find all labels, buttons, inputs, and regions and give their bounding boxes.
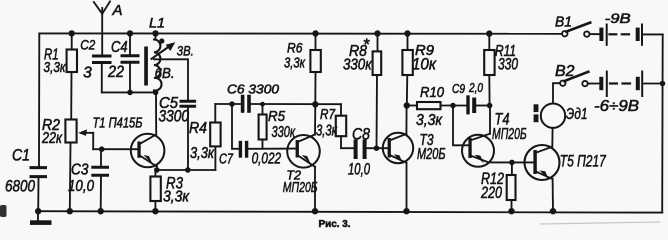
svg-text:В2: В2 bbox=[555, 63, 575, 80]
svg-text:C9: C9 bbox=[452, 81, 465, 96]
wire T4 base drop bbox=[453, 106, 469, 146]
switch B2 bbox=[560, 72, 599, 87]
svg-text:R6: R6 bbox=[287, 40, 303, 56]
svg-text:C4: C4 bbox=[111, 39, 128, 56]
svg-text:10,0: 10,0 bbox=[68, 178, 94, 195]
svg-text:R4: R4 bbox=[189, 120, 207, 137]
svg-text:Рис. 3.: Рис. 3. bbox=[319, 218, 351, 230]
wire T4 emitter to T5 base bbox=[489, 161, 534, 163]
svg-text:R5: R5 bbox=[268, 108, 286, 125]
svg-text:10к: 10к bbox=[412, 56, 437, 74]
svg-text:Эд1: Эд1 bbox=[566, 106, 588, 123]
transistor T2 MP20B bbox=[287, 104, 320, 211]
resistor R10 3,3k bbox=[417, 102, 441, 109]
capacitor C4 22 bbox=[122, 33, 138, 92]
resistor R6 3,3k bbox=[310, 34, 320, 105]
svg-text:С6 3300: С6 3300 bbox=[227, 82, 280, 97]
svg-text:R10: R10 bbox=[420, 84, 445, 101]
svg-text:6800: 6800 bbox=[5, 178, 36, 196]
battery B1 -9V bbox=[599, 24, 662, 46]
transistor T3 M20B bbox=[383, 106, 413, 212]
svg-text:220: 220 bbox=[480, 183, 502, 202]
svg-text:3В.: 3В. bbox=[177, 43, 194, 59]
ground bbox=[30, 211, 52, 225]
capacitor C5 3300 bbox=[181, 101, 195, 106]
svg-text:330: 330 bbox=[498, 55, 518, 74]
wire C7 drop bbox=[232, 104, 239, 149]
svg-text:3,3к: 3,3к bbox=[316, 123, 337, 140]
svg-text:C7: C7 bbox=[219, 151, 233, 168]
svg-text:В1: В1 bbox=[555, 15, 572, 31]
inductor L1 with adjustable tap bbox=[144, 33, 175, 92]
svg-text:A: A bbox=[112, 2, 123, 19]
wire node line y105.5 bbox=[407, 105, 417, 107]
capacitor C8 10,0 bbox=[356, 142, 365, 158]
wire top rail (-9V bus) bbox=[39, 32, 562, 34]
scan artifact left edge bbox=[0, 205, 7, 217]
svg-text:-9В: -9В bbox=[605, 10, 631, 26]
svg-text:10,0: 10,0 bbox=[348, 161, 371, 179]
svg-text:3,3к: 3,3к bbox=[284, 55, 306, 72]
scan artifact bottom right faint line bbox=[540, 222, 660, 224]
svg-text:C2: C2 bbox=[80, 37, 95, 53]
wire node line y104 bbox=[215, 103, 241, 105]
svg-text:R7: R7 bbox=[320, 106, 336, 123]
svg-text:C8: C8 bbox=[352, 126, 371, 144]
svg-text:Т5 П217: Т5 П217 bbox=[560, 152, 606, 171]
svg-text:0,022: 0,022 bbox=[252, 151, 282, 168]
svg-text:МП20Б: МП20Б bbox=[283, 179, 318, 196]
resistor R5 330k bbox=[259, 104, 267, 149]
resistor R9 10k bbox=[402, 34, 412, 106]
svg-text:3,3к: 3,3к bbox=[190, 145, 215, 162]
node 3V tap bbox=[159, 38, 164, 43]
resistor R7 3,3k bbox=[336, 104, 354, 148]
transistor T4 MP20B bbox=[462, 106, 494, 167]
svg-text:3,3к: 3,3к bbox=[44, 59, 67, 76]
motor Ed1 bbox=[534, 83, 566, 128]
resistor R3 3,3k bbox=[150, 170, 160, 211]
antenna A bbox=[94, 1, 110, 55]
wire tank bottom node bbox=[102, 91, 156, 93]
capacitor C2 3 bbox=[94, 56, 111, 63]
svg-text:3,3к: 3,3к bbox=[163, 189, 190, 206]
svg-text:2,0: 2,0 bbox=[468, 80, 483, 95]
resistor R8 330k bbox=[373, 34, 382, 149]
resistor R11 330 bbox=[484, 34, 494, 106]
svg-text:C3: C3 bbox=[71, 162, 88, 179]
wire left rail bbox=[38, 33, 40, 165]
resistor R1 3,3k bbox=[67, 33, 77, 119]
battery B2 -6..9V bbox=[599, 71, 662, 98]
capacitor C9 2,0 bbox=[468, 97, 474, 113]
svg-text:3,3к: 3,3к bbox=[416, 112, 443, 129]
switch B1 bbox=[562, 23, 599, 37]
capacitor C1 6800 bbox=[31, 168, 46, 177]
resistor R4 3,3k bbox=[210, 104, 220, 170]
wire T1 emitter line bbox=[157, 169, 216, 171]
svg-text:22к: 22к bbox=[41, 130, 63, 147]
svg-text:-6÷9В: -6÷9В bbox=[594, 98, 639, 115]
potentiometer R2 22k bbox=[65, 120, 138, 212]
svg-text:C1: C1 bbox=[12, 146, 30, 165]
wire bottom rail (common bus) bbox=[38, 211, 662, 212]
svg-text:*: * bbox=[364, 36, 371, 54]
capacitor C6 3300 bbox=[243, 97, 249, 112]
capacitor C7 0,022 bbox=[240, 143, 246, 157]
wire right rail bbox=[661, 34, 664, 212]
resistor R12 220 bbox=[507, 162, 516, 211]
svg-text:6В.: 6В. bbox=[155, 65, 175, 82]
transistor T5 P217 bbox=[525, 128, 560, 211]
svg-text:М20Б: М20Б bbox=[417, 146, 446, 163]
capacitor C3 10,0 bbox=[93, 149, 108, 211]
transistor T1 P415B bbox=[131, 92, 165, 170]
svg-text:МП20Б: МП20Б bbox=[492, 126, 527, 143]
svg-text:Т1 П415Б: Т1 П415Б bbox=[93, 116, 143, 132]
svg-text:3: 3 bbox=[83, 64, 92, 81]
wire 6V tap to C5 bbox=[154, 59, 188, 100]
svg-text:3300: 3300 bbox=[159, 107, 190, 126]
svg-text:330к: 330к bbox=[343, 57, 373, 74]
svg-text:L1: L1 bbox=[149, 15, 165, 31]
svg-text:22: 22 bbox=[107, 63, 124, 81]
